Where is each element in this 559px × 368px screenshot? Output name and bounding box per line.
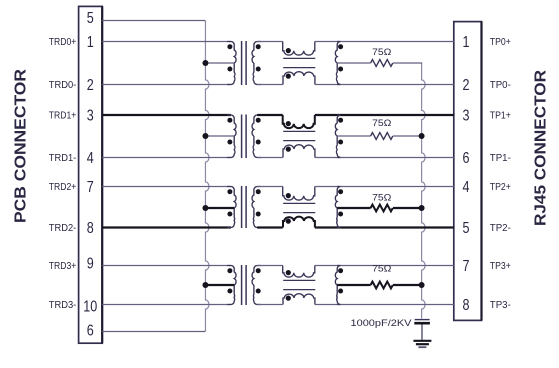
junction node center tap channel 2 on tie line (202, 205, 208, 211)
resistor R3 75ohm (371, 205, 393, 212)
wire T4 secondary to choke L4 (top) (257, 265, 283, 267)
svg-text:TP3+: TP3+ (490, 261, 511, 272)
wire TRD2+ PCB to transformer T3 primary (102, 186, 231, 188)
svg-text:2: 2 (463, 77, 470, 94)
wire termination bus to capacitor (422, 63, 426, 319)
transformer T4 secondary winding upper half (252, 266, 261, 286)
autotransformer winding channel 3 upper half (335, 266, 340, 286)
wire TRD0- PCB to transformer T1 primary (102, 84, 231, 86)
transformer T4 secondary winding lower half (253, 285, 260, 305)
wire TRD2- PCB to transformer T3 primary (102, 226, 231, 228)
wire resistor R1 to termination bus (393, 62, 422, 64)
wire choke L3 to RJ45 TP2+ (315, 186, 454, 188)
wire choke L1 to RJ45 TP0- (315, 84, 454, 86)
autotransformer winding channel 0 upper half (335, 42, 340, 64)
transformer T2 core (241, 115, 243, 159)
svg-text:TRD1-: TRD1- (49, 153, 77, 164)
svg-text:75Ω: 75Ω (372, 264, 392, 274)
wire capacitor C1 to ground (421, 325, 423, 340)
transformer T4 primary winding lower half (227, 285, 234, 305)
transformer T1 core (241, 41, 243, 85)
svg-text:75Ω: 75Ω (372, 118, 392, 128)
wire autotransformer center tap to resistor R2 (337, 135, 370, 137)
transformer T3 primary winding lower half (227, 208, 234, 228)
wire choke L3 to RJ45 TP2- (315, 226, 454, 228)
choke L3 top winding (283, 187, 315, 201)
autotransformer winding channel 1 upper half (335, 115, 340, 136)
wire PCB pin5 to tie line (102, 20, 205, 22)
svg-text:8: 8 (87, 220, 94, 237)
wire T2 primary center tap to tie line (205, 135, 234, 137)
wire resistor R3 to termination bus (393, 207, 423, 209)
wire TRD3- PCB to transformer T4 primary (102, 304, 231, 306)
transformer T3 secondary winding upper half (252, 187, 261, 209)
wire vertical tie line (pin5-pin6 center-tap bus) (205, 21, 209, 332)
svg-text:TRD1+: TRD1+ (49, 110, 77, 121)
junction node resistor R3 on termination bus (419, 205, 425, 211)
svg-text:TP2-: TP2- (490, 223, 511, 234)
transformer T2 secondary winding lower half (253, 136, 261, 158)
ground symbol (413, 340, 431, 342)
wire TRD0+ PCB to transformer T1 primary (102, 41, 231, 43)
choke L2 core (283, 130, 315, 132)
svg-text:6: 6 (87, 323, 94, 340)
svg-text:TP0+: TP0+ (490, 37, 511, 48)
transformer T4 primary winding upper half (227, 266, 236, 286)
resistor R2 75ohm (371, 133, 393, 140)
choke L4 core (283, 279, 315, 281)
junction node resistor R2 on termination bus (419, 133, 425, 139)
choke L3 core (283, 202, 315, 204)
svg-text:8: 8 (463, 297, 470, 314)
svg-text:3: 3 (463, 108, 470, 125)
svg-text:4: 4 (463, 179, 470, 196)
transformer T2 primary winding upper half (227, 115, 236, 136)
choke L2 top winding (283, 115, 315, 128)
svg-text:TRD3-: TRD3- (49, 300, 77, 311)
choke L1 core (283, 57, 315, 59)
wire choke L2 to RJ45 TP1- (315, 157, 454, 159)
svg-text:6: 6 (463, 150, 470, 167)
junction node center tap channel 0 on tie line (202, 60, 208, 66)
wire T2 secondary to choke L2 (top) (257, 114, 283, 116)
wire TRD3+ PCB to transformer T4 primary (102, 265, 231, 267)
PCB connector box right edge (101, 6, 103, 343)
wire T3 primary center tap to tie line (205, 207, 234, 209)
capacitor C1 1000pF/2KV top plate (415, 319, 430, 321)
svg-text:9: 9 (87, 256, 94, 273)
svg-text:1: 1 (87, 34, 94, 51)
wire T4 primary center tap to tie line (205, 284, 234, 286)
svg-text:5: 5 (87, 10, 94, 27)
wire T1 secondary to choke L1 (top) (257, 41, 283, 43)
choke L4 bottom winding (283, 294, 315, 305)
autotransformer winding channel 2 lower half (337, 208, 341, 228)
capacitor C1 bottom plate (414, 322, 430, 325)
choke L1 top winding (283, 42, 315, 56)
choke L1 bottom winding (283, 72, 315, 85)
wire choke L1 to RJ45 TP0+ (315, 41, 454, 43)
transformer T2 primary winding lower half (227, 136, 235, 158)
svg-text:TP2+: TP2+ (490, 182, 511, 193)
svg-text:RJ45 CONNECTOR: RJ45 CONNECTOR (533, 70, 550, 226)
wire T3 secondary to choke L3 (bottom) (257, 226, 283, 228)
wire resistor R2 to termination bus (393, 135, 423, 137)
RJ45 connector J2 box (454, 22, 482, 321)
transformer T1 primary winding lower half (227, 63, 235, 85)
wire TRD1- PCB to transformer T2 primary (102, 157, 231, 159)
svg-text:1000pF/2KV: 1000pF/2KV (351, 318, 413, 329)
wire TRD1+ PCB to transformer T2 primary (102, 114, 231, 116)
wire autotransformer center tap to resistor R3 (337, 207, 370, 209)
svg-text:TP3-: TP3- (490, 300, 511, 311)
transformer T2 secondary winding upper half (252, 115, 261, 136)
svg-text:TP1-: TP1- (490, 153, 511, 164)
svg-text:7: 7 (87, 179, 94, 196)
wire choke L2 to RJ45 TP1+ (315, 114, 454, 116)
RJ45 connector box right edge (480, 22, 482, 321)
svg-text:1: 1 (463, 34, 470, 51)
svg-text:PCB CONNECTOR: PCB CONNECTOR (13, 69, 30, 223)
svg-text:2: 2 (87, 77, 94, 94)
transformer T1 secondary winding lower half (253, 63, 261, 85)
svg-text:75Ω: 75Ω (372, 47, 392, 57)
svg-text:4: 4 (87, 150, 94, 167)
transformer T4 core (241, 265, 243, 305)
choke L3 bottom winding (283, 217, 315, 228)
svg-text:TRD2-: TRD2- (49, 223, 77, 234)
PCB connector J1 box (79, 6, 103, 343)
wire resistor R4 to termination bus (393, 284, 423, 286)
svg-text:10: 10 (83, 299, 97, 316)
wire T1 secondary to choke L1 (bottom) (257, 84, 283, 86)
choke L2 bottom winding (283, 145, 315, 158)
junction node resistor R4 on termination bus (419, 282, 425, 288)
wire T3 secondary to choke L3 (top) (257, 186, 283, 188)
wire T4 secondary to choke L4 (bottom) (257, 304, 283, 306)
svg-text:TRD0-: TRD0- (49, 80, 77, 91)
svg-text:TP1+: TP1+ (490, 110, 511, 121)
svg-text:TRD3+: TRD3+ (49, 261, 77, 272)
wire T2 secondary to choke L2 (bottom) (257, 157, 283, 159)
wire PCB pin6 to tie line (102, 331, 205, 333)
transformer T3 primary winding upper half (227, 187, 236, 209)
choke L4 top winding (283, 266, 315, 278)
wire choke L4 to RJ45 TP3- (315, 304, 454, 306)
autotransformer winding channel 1 lower half (336, 136, 340, 158)
svg-text:TP0-: TP0- (490, 80, 511, 91)
autotransformer winding channel 2 upper half (335, 187, 340, 209)
transformer T3 core (241, 186, 243, 228)
autotransformer winding channel 3 lower half (337, 285, 341, 305)
svg-text:TRD2+: TRD2+ (49, 182, 77, 193)
transformer T1 secondary winding upper half (252, 42, 261, 64)
transformer T1 primary winding upper half (227, 42, 236, 64)
svg-text:7: 7 (463, 258, 470, 275)
autotransformer winding channel 0 lower half (336, 63, 340, 85)
svg-text:5: 5 (463, 220, 470, 237)
wire autotransformer center tap to resistor R4 (337, 284, 370, 286)
junction node center tap channel 3 on tie line (202, 282, 208, 288)
junction node center tap channel 1 on tie line (202, 133, 208, 139)
resistor R1 75ohm (371, 60, 393, 67)
wire T1 primary center tap to tie line (205, 62, 234, 64)
svg-text:3: 3 (87, 108, 94, 125)
wire autotransformer center tap to resistor R1 (337, 62, 370, 64)
wire choke L4 to RJ45 TP3+ (315, 265, 454, 267)
svg-text:75Ω: 75Ω (372, 193, 392, 203)
transformer T3 secondary winding lower half (253, 208, 260, 228)
svg-text:TRD0+: TRD0+ (49, 37, 77, 48)
resistor R4 75ohm (371, 282, 393, 289)
